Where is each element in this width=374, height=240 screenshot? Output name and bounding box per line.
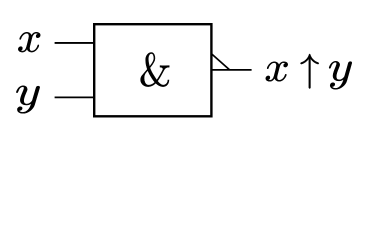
output label glyph x <box>266 62 288 82</box>
negation indicator wedge at output <box>212 54 230 70</box>
input wire y <box>55 96 94 98</box>
output label glyph y <box>329 61 352 89</box>
gate U1 body (IEC AND-gate box) <box>94 24 211 116</box>
output wire <box>212 69 252 71</box>
input wire x <box>55 42 94 44</box>
output label operator arrow (Sheffer stroke) <box>300 54 318 89</box>
node label x (left input) <box>18 32 40 52</box>
node label y (left input) <box>16 86 39 114</box>
gate function label & <box>141 52 170 86</box>
